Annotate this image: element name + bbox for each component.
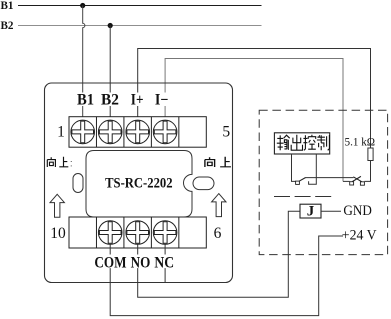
svg-text:COM: COM: [94, 254, 126, 271]
svg-text:I+: I+: [131, 92, 144, 109]
svg-text:1: 1: [57, 124, 65, 141]
wire control box to switch1 throw: [309, 154, 317, 184]
glyph shu (of output-control): [277, 135, 290, 150]
terminal label B1: [76, 92, 96, 109]
svg-text:B1: B1: [77, 92, 94, 109]
glyph zhi (of output-control): [317, 135, 330, 150]
dashed separator inside enclosure: [274, 196, 336, 198]
relay J box: [300, 204, 321, 218]
svg-text:TS-RC-2202: TS-RC-2202: [105, 176, 173, 192]
screw terminal I-: [153, 120, 177, 144]
wire SW1 to SW2: [305, 177, 353, 179]
top terminal block outer: [69, 117, 206, 148]
bottom terminal block cell dividers: [96, 217, 178, 248]
screw terminal COM: [98, 221, 122, 245]
svg-text:B2: B2: [1, 20, 14, 32]
module body outline: [45, 83, 233, 283]
terminal label NO: [129, 254, 152, 271]
bottom terminal block outer: [69, 217, 206, 248]
terminal label COM: [93, 254, 128, 271]
wire I- foot to SW2: [343, 180, 350, 182]
switch SW1 arm: [299, 178, 306, 182]
svg-text:B1: B1: [1, 0, 14, 12]
controller dashed enclosure: [259, 110, 387, 254]
wire I+ to resistor: [138, 49, 371, 149]
svg-text:I−: I−: [155, 92, 169, 109]
inner raised panel with right-edge notch: [86, 151, 192, 218]
top terminal block cell dividers: [96, 117, 178, 148]
svg-text:GND: GND: [343, 203, 372, 219]
wire NC stub: [164, 244, 166, 282]
output-control box (shu-chu-kong-zhi): [274, 133, 329, 154]
junction dot on B2 bus: [108, 23, 113, 28]
left mounting slot (vertical oval): [73, 174, 83, 193]
svg-text:6: 6: [214, 225, 222, 242]
wire COM to +24V: [110, 236, 343, 316]
svg-text:NO: NO: [131, 254, 151, 271]
switch SW2 left square: [350, 182, 354, 185]
screw terminal NO: [126, 221, 150, 245]
right wire knockout (horizontal oval): [193, 177, 214, 190]
switch SW2 cross stroke: [353, 177, 361, 182]
svg-text:5: 5: [222, 124, 230, 141]
terminal label B2: [100, 92, 121, 109]
switch SW2 arm: [352, 176, 361, 181]
svg-text:B2: B2: [101, 92, 119, 109]
screw terminal B2: [98, 120, 122, 144]
left up arrow: [50, 194, 64, 217]
right label xiang-shang (向上): [205, 157, 231, 167]
switch SW2 right square: [360, 182, 364, 185]
wire NO to J: [138, 211, 300, 297]
wire B2 bus line: [18, 25, 262, 27]
screw terminal I+: [126, 120, 150, 144]
glyph chu (of output-control): [291, 135, 302, 150]
glyph kong (of output-control): [303, 135, 315, 151]
screw terminal B1 (1): [71, 120, 95, 144]
junction dot on B1 bus: [80, 3, 85, 8]
switch SW1 pole square: [296, 181, 300, 184]
wire J to GND: [321, 210, 341, 212]
wire control box to switch1 pole: [292, 154, 296, 181]
screw terminal NC: [153, 221, 177, 245]
svg-text:5.1 kΩ: 5.1 kΩ: [345, 134, 376, 148]
svg-text:+24 V: +24 V: [342, 228, 377, 244]
svg-text:NC: NC: [154, 254, 174, 271]
svg-text:J: J: [307, 204, 315, 220]
svg-text:10: 10: [50, 225, 66, 242]
wire I- to switch: [165, 59, 343, 182]
wire B2 drop: [109, 26, 111, 121]
left label xiang-shang (向上:): [47, 157, 71, 167]
wire B1 drop with hop over B2: [83, 6, 85, 121]
wire B1 bus line: [18, 5, 262, 7]
resistor body: [368, 148, 373, 161]
wire resistor to switch: [365, 161, 371, 182]
terminal label NC: [153, 254, 176, 271]
terminal label I+: [129, 92, 146, 109]
terminal label I-: [153, 92, 171, 109]
right up arrow: [212, 194, 226, 217]
